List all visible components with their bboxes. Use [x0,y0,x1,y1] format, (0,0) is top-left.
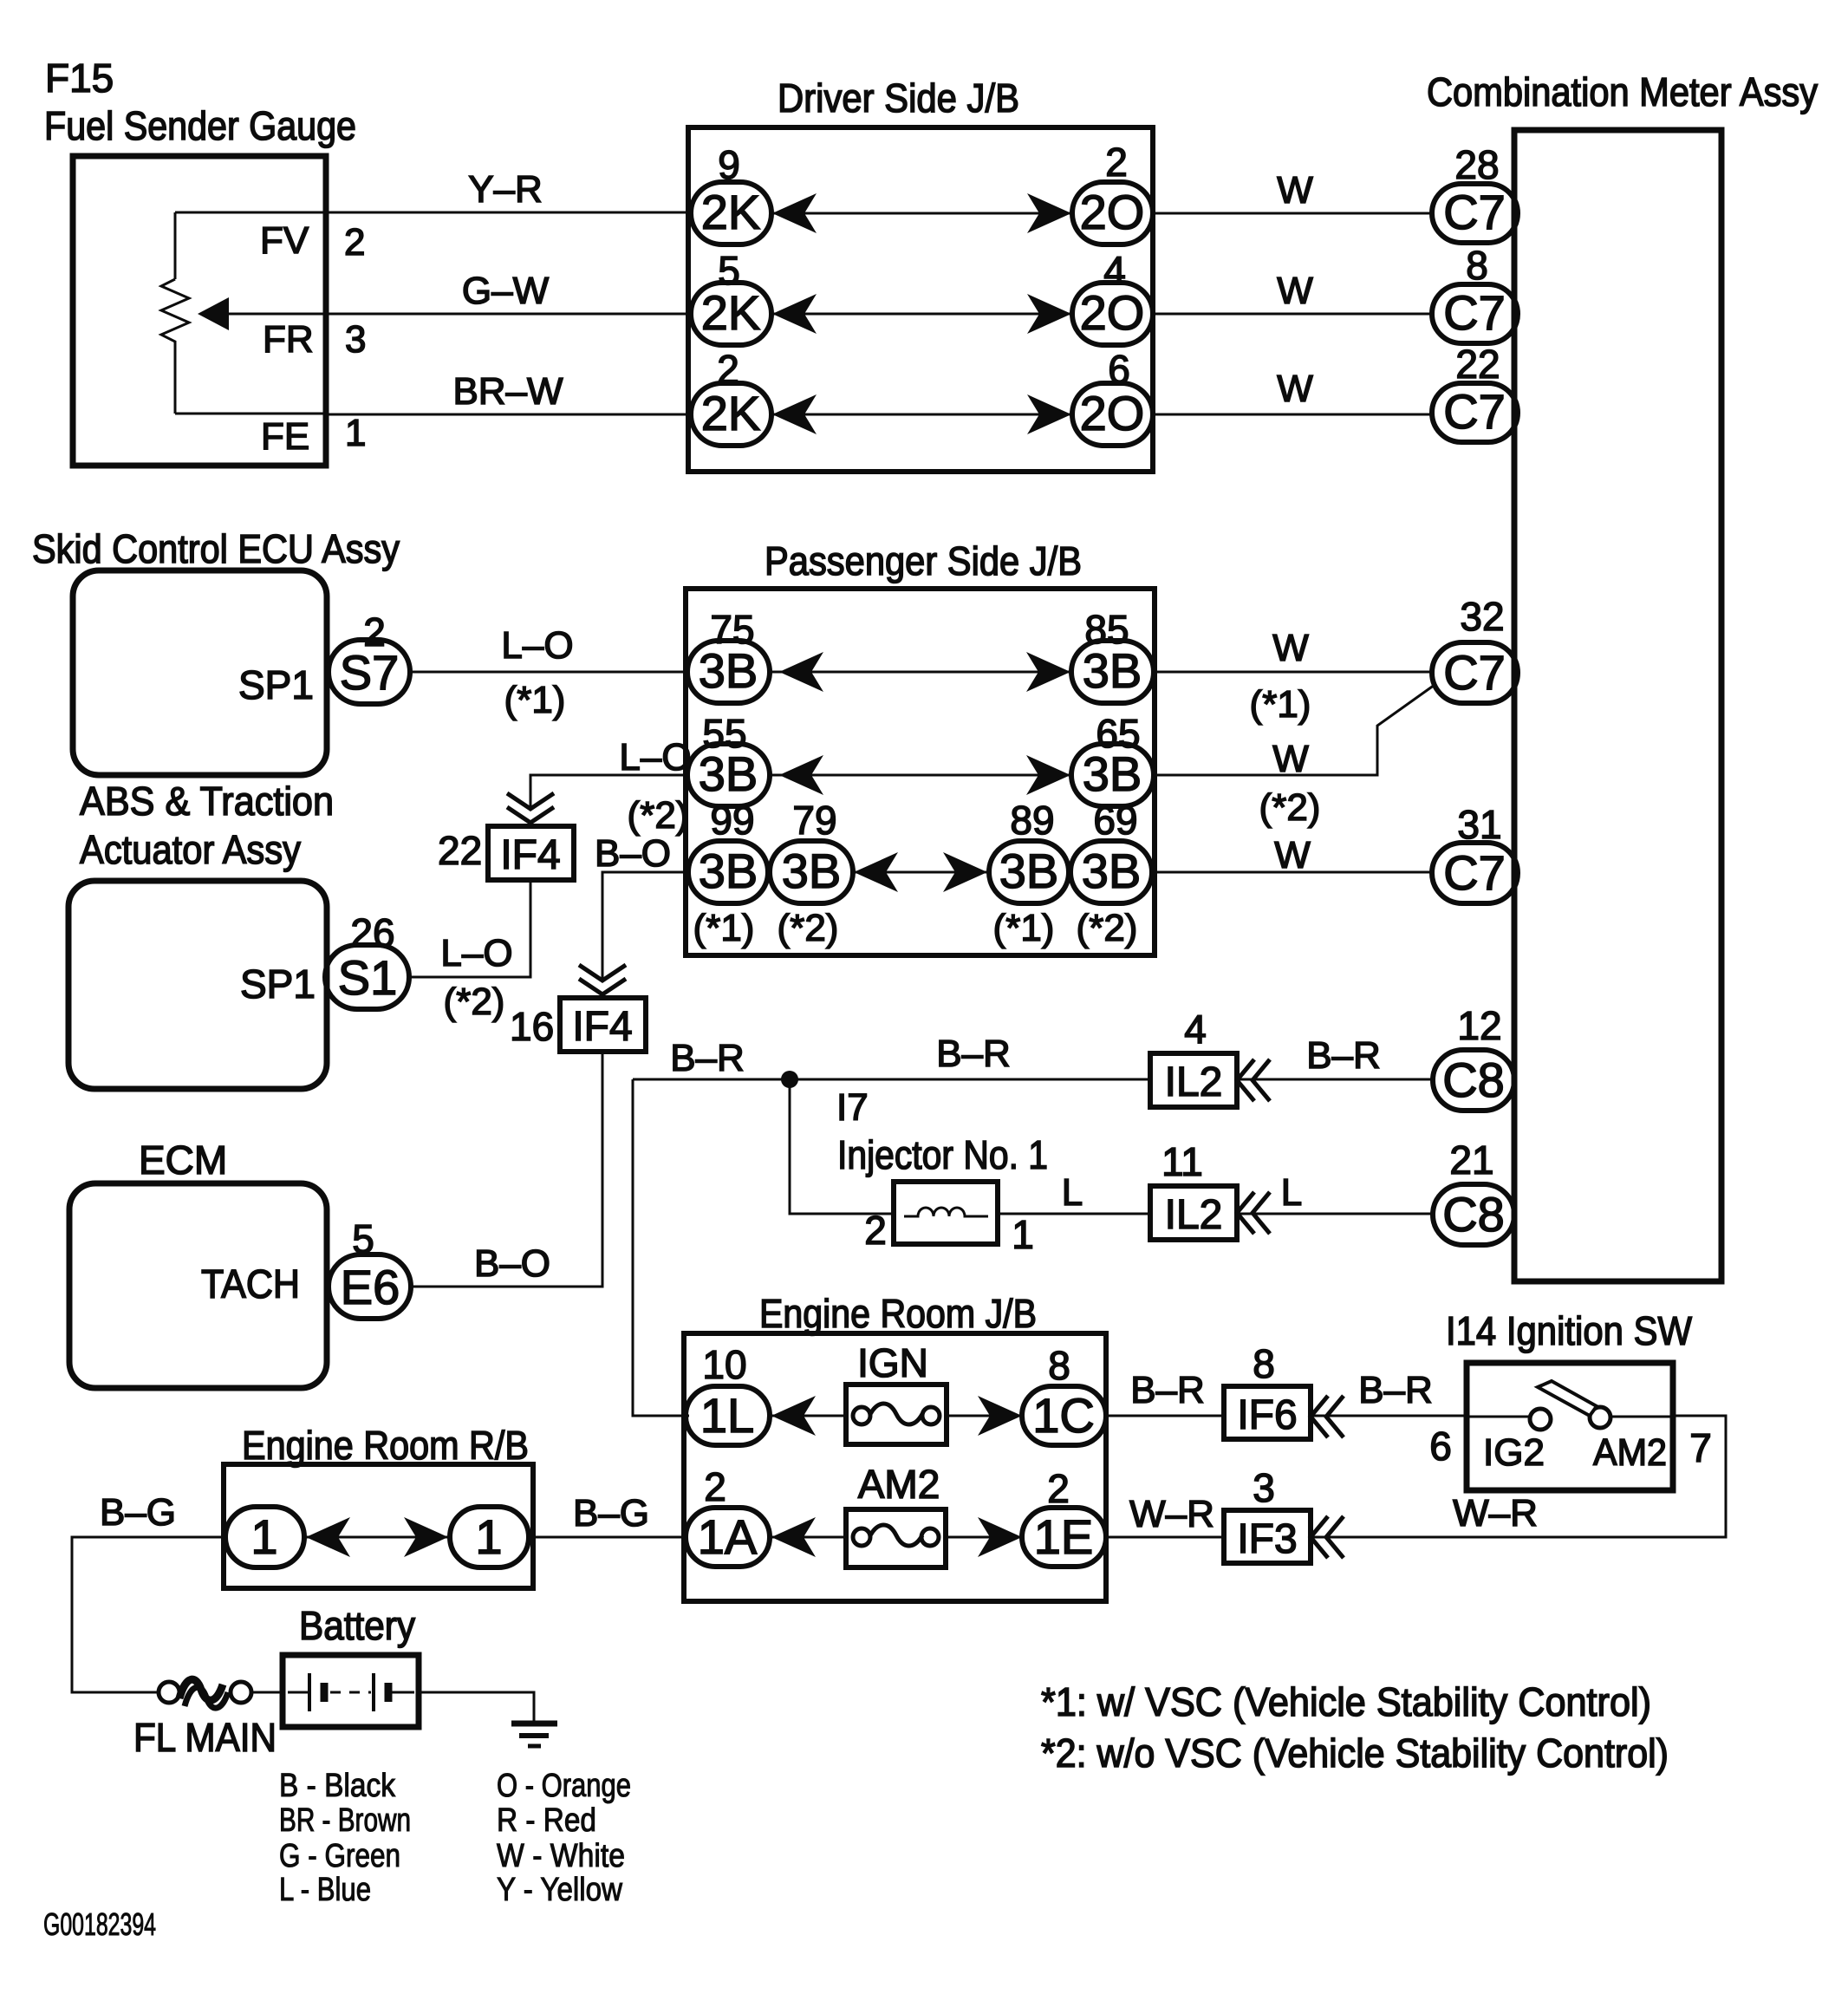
arrow right row2 [1027,294,1071,334]
svg-text:I14 Ignition SW: I14 Ignition SW [1446,1308,1693,1353]
svg-text:1E: 1E [1034,1509,1094,1564]
svg-text:7: 7 [1689,1425,1712,1470]
svg-text:BR–W: BR–W [452,370,563,413]
connector 3B pin 65 [1071,744,1154,806]
wire L-O S7 to passenger JB [410,671,687,674]
svg-text:16: 16 [510,1004,554,1049]
svg-text:89: 89 [1010,798,1054,843]
svg-text:2: 2 [1105,140,1128,185]
arrow right rowB [1026,755,1070,795]
svg-text:W: W [1277,270,1313,312]
svg-text:2O: 2O [1080,386,1145,440]
wire B-O E6 to IF4 16 (drawn above) [411,1286,433,1288]
svg-text:1: 1 [251,1509,277,1564]
wire B-G RB to 1A [529,1536,686,1539]
svg-text:4: 4 [1103,248,1126,293]
svg-text:75: 75 [710,607,754,652]
svg-text:O - Orange: O - Orange [497,1768,631,1804]
connector C7 pin 22 [1432,383,1518,442]
svg-text:3: 3 [345,318,366,361]
wire B-R vertical to engine JB [633,1079,689,1416]
svg-text:(*2): (*2) [1259,786,1321,829]
svg-text:3: 3 [1253,1465,1275,1510]
svg-text:C7: C7 [1443,845,1506,900]
svg-text:I7: I7 [836,1086,869,1129]
ECM box [69,1183,327,1388]
switch lever [1538,1381,1597,1416]
svg-text:6: 6 [1108,347,1130,392]
fuel sender gauge F15 box [73,156,326,466]
wire L injector to IL2 11 [998,1213,1150,1215]
svg-text:BR - Brown: BR - Brown [279,1802,411,1839]
svg-text:Y - Yellow: Y - Yellow [497,1872,622,1908]
fuse AM2 [846,1509,946,1567]
svg-text:IF6: IF6 [1237,1392,1297,1438]
arrow left RB [306,1517,350,1557]
svg-text:*2: w/o VSC (Vehicle Stability: *2: w/o VSC (Vehicle Stability Control) [1041,1730,1669,1776]
wire L IL2 11 to C8 21 [1237,1213,1433,1215]
chevron into IF4 22 [507,793,554,823]
wire W row1 to meter [1153,212,1432,215]
connector 1L pin 10 [686,1386,770,1445]
svg-text:IGN: IGN [857,1340,928,1385]
svg-text:W: W [1272,738,1309,780]
svg-text:Injector No. 1: Injector No. 1 [837,1132,1048,1177]
svg-text:AM2: AM2 [858,1462,940,1507]
svg-text:12: 12 [1457,1003,1501,1048]
chevron IF6 [1311,1396,1344,1437]
connector 2O pin 6 [1072,383,1153,446]
wire W rowC to C7 31 [1152,871,1432,874]
svg-text:W: W [1274,834,1311,876]
connector E6 pin 5 [329,1254,411,1319]
svg-text:L: L [1281,1171,1302,1214]
svg-text:2: 2 [1047,1466,1070,1511]
svg-text:TACH: TACH [201,1261,300,1307]
svg-text:85: 85 [1084,607,1129,652]
wire W row2 to meter [1153,313,1432,316]
svg-text:FR: FR [263,318,314,361]
wire FL MAIN to battery [251,1691,283,1694]
svg-text:G–W: G–W [462,270,550,312]
wire inside RB [304,1536,450,1539]
connector 3B pin 85 [1071,641,1154,703]
svg-text:Engine Room R/B: Engine Room R/B [242,1423,529,1468]
arrow left IGN row [771,1396,816,1436]
svg-text:9: 9 [718,142,740,187]
svg-text:SP1: SP1 [240,961,316,1007]
Combination Meter Assy box [1514,130,1721,1281]
connector 3B pin 55 [687,744,770,806]
switch contact IG2 [1530,1409,1551,1430]
junction I7 [781,1071,798,1088]
ABS & Traction Actuator Assy box [68,881,327,1089]
connector 2O pin 2 [1072,182,1153,244]
connector 3B pin 79 [770,841,853,903]
svg-text:E6: E6 [341,1260,400,1314]
svg-text:B–R: B–R [670,1037,745,1079]
junction connector IF4 pin 16 [560,998,646,1052]
wire rowC inside passenger JB [853,871,989,874]
svg-text:2: 2 [704,1464,726,1509]
wire B-R IF6 to ignition SW [1311,1415,1467,1417]
svg-text:B–R: B–R [1358,1369,1433,1411]
wire rowB inside passenger JB [770,774,1071,777]
arrow left row2 [772,294,817,334]
chevron IL2 11 [1237,1192,1270,1234]
battery cells [288,1673,414,1711]
battery box [283,1655,419,1727]
connector 1 (RB left) [225,1507,304,1567]
arrow into resistor [198,297,229,330]
svg-text:W–R: W–R [1453,1492,1538,1535]
I14 ignition switch box [1467,1363,1673,1490]
svg-text:5: 5 [352,1216,374,1261]
svg-text:L–O: L–O [619,736,691,779]
svg-text:C7: C7 [1443,645,1506,700]
svg-text:(*2): (*2) [444,981,505,1023]
wire junction down to injector [790,1079,894,1214]
svg-text:1: 1 [475,1509,502,1564]
wire AM2 row inside JB [770,1536,1022,1539]
svg-text:Driver Side J/B: Driver Side J/B [778,75,1019,121]
wire B-R 1C to IF6 [1106,1415,1224,1417]
connector 1C pin 8 [1022,1386,1106,1445]
resistor (fuel sender element) [161,279,189,347]
svg-text:AM2: AM2 [1593,1431,1667,1474]
Engine Room J/B box [684,1333,1106,1601]
svg-text:ABS & Traction: ABS & Traction [80,779,334,824]
arrow left row3 [772,394,817,434]
svg-text:B–G: B–G [100,1491,176,1534]
svg-text:L - Blue: L - Blue [279,1872,371,1908]
svg-text:B–R: B–R [936,1033,1011,1075]
wire L-O (*2) passenger JB to IF4 [530,775,687,806]
Passenger Side J/B box [686,589,1155,955]
chevron IF3 [1311,1516,1344,1558]
wire G-W fuel to driver JB [326,313,691,316]
svg-text:2: 2 [363,609,386,655]
connector 3B pin 69 [1070,841,1152,903]
svg-text:65: 65 [1096,711,1140,756]
arrow left rowB [779,755,823,795]
svg-text:26: 26 [350,910,394,955]
connector 2K pin 5 [691,283,771,345]
junction connector IF4 pin 22 [488,826,574,880]
svg-text:ECM: ECM [139,1137,227,1183]
connector 1 (RB right) [450,1507,529,1567]
svg-text:IF4: IF4 [572,1004,632,1050]
connector 2K pin 2 [691,383,771,446]
svg-text:C7: C7 [1443,384,1506,439]
svg-text:2O: 2O [1080,185,1145,239]
wire W-R 1E to IF3 [1106,1536,1224,1539]
svg-text:R - Red: R - Red [497,1802,596,1839]
svg-text:Passenger Side J/B: Passenger Side J/B [765,538,1082,583]
svg-text:3B: 3B [999,844,1059,898]
wire IGN row inside JB [770,1415,1022,1417]
wire IF4 16 down to E6 row [411,1052,602,1287]
svg-text:Y–R: Y–R [468,168,543,211]
wire B-O passenger JB to IF4 16 [602,872,688,978]
Skid Control ECU Assy box [73,570,327,775]
svg-text:B–R: B–R [1306,1034,1381,1077]
svg-text:FV: FV [260,219,309,262]
svg-text:Engine Room J/B: Engine Room J/B [759,1291,1037,1336]
svg-text:5: 5 [718,248,740,293]
svg-text:(*2): (*2) [1077,907,1138,949]
svg-text:L–O: L–O [501,624,573,667]
svg-text:2K: 2K [701,285,761,340]
svg-text:Actuator Assy: Actuator Assy [80,827,301,872]
arrow right rowC [943,852,987,892]
svg-text:B–G: B–G [573,1492,649,1535]
svg-text:Skid Control ECU Assy: Skid Control ECU Assy [32,526,400,571]
connector C8 pin 12 [1433,1050,1514,1111]
svg-text:3B: 3B [699,844,758,898]
svg-text:8: 8 [1466,243,1488,288]
svg-text:69: 69 [1093,798,1137,843]
svg-text:8: 8 [1253,1341,1275,1386]
svg-text:1L: 1L [700,1388,754,1443]
arrow right RB [404,1517,448,1557]
svg-text:2K: 2K [701,386,761,440]
svg-text:L–O: L–O [440,932,512,974]
svg-text:(*1): (*1) [693,907,755,949]
connector 2K pin 9 [691,182,771,244]
svg-text:B–R: B–R [1130,1369,1205,1411]
wire W-R IF3 to ignition SW pin 7 [1311,1416,1726,1537]
svg-text:IL2: IL2 [1165,1059,1223,1105]
svg-text:F15: F15 [45,55,114,101]
arrow left row1 [772,193,817,233]
wire battery to ground [419,1692,534,1722]
svg-text:11: 11 [1162,1139,1203,1184]
svg-text:22: 22 [438,828,482,873]
svg-text:SP1: SP1 [238,662,314,707]
connector 1E pin 2 [1022,1508,1106,1567]
svg-text:C7: C7 [1443,185,1506,239]
svg-text:FE: FE [261,415,309,458]
svg-text:1: 1 [1012,1212,1034,1257]
wire B-R IL2 4 to C8 12 [1237,1078,1433,1081]
svg-text:B–O: B–O [595,832,671,875]
svg-text:W: W [1277,368,1313,410]
svg-text:(*1): (*1) [504,679,566,721]
svg-text:1: 1 [345,412,366,454]
svg-text:2: 2 [344,221,365,264]
arrow right row3 [1027,394,1071,434]
arrow right AM2 row [978,1517,1022,1557]
fusible link FL MAIN [159,1679,251,1708]
arrow right rowA [1026,652,1070,692]
svg-text:C7: C7 [1443,285,1506,340]
connector C8 pin 21 [1433,1184,1514,1245]
svg-text:(*1): (*1) [1250,683,1311,726]
svg-text:IF3: IF3 [1237,1516,1297,1562]
svg-text:(*2): (*2) [628,794,689,837]
svg-text:99: 99 [710,798,754,843]
svg-text:L: L [1062,1171,1083,1214]
injector coil [904,1208,988,1216]
connector C7 pin 28 [1432,184,1518,243]
wire from AM2 contact to box edge [1610,1416,1673,1418]
wire BR-W fuel to driver JB [326,414,691,416]
wire W (*1) rowA to C7 32 [1154,671,1432,674]
svg-text:1C: 1C [1032,1388,1095,1443]
svg-text:10: 10 [702,1342,746,1387]
Engine Room R/B box [224,1464,533,1588]
svg-text:3B: 3B [782,844,842,898]
switch contact AM2 [1590,1407,1610,1428]
svg-text:2K: 2K [701,185,761,239]
wire W row3 to meter [1153,414,1432,416]
wire row1 inside driver JB [771,212,1072,215]
svg-text:W: W [1272,627,1309,669]
wire rowA inside passenger JB [770,671,1071,674]
connector C7 pin 31 [1432,843,1518,903]
arrow right IGN row [978,1396,1022,1436]
junction connector IL2 pin 11 [1150,1186,1237,1240]
fuel sender inner connector box [175,212,326,414]
wire FR arrow stub [224,313,326,316]
svg-text:C8: C8 [1442,1187,1505,1241]
svg-text:W - White: W - White [497,1838,625,1874]
arrow right row1 [1027,193,1071,233]
injector No.1 box I7 [894,1182,998,1244]
svg-text:B–O: B–O [474,1242,550,1285]
svg-text:W: W [1277,169,1313,212]
connector S7 pin 2 [329,640,410,704]
fuse IGN [846,1385,947,1444]
connector S1 pin 26 [325,945,409,1009]
svg-text:31: 31 [1457,802,1501,847]
svg-text:(*1): (*1) [993,907,1055,949]
svg-text:32: 32 [1460,594,1504,639]
wire B-G left of RB [72,1537,225,1692]
svg-text:22: 22 [1455,342,1500,387]
svg-text:3B: 3B [1082,844,1142,898]
svg-text:C8: C8 [1442,1052,1505,1107]
svg-text:S1: S1 [338,950,398,1005]
svg-text:79: 79 [792,798,836,843]
wire B-R horizontal to IL2 4 [633,1078,1150,1081]
svg-text:8: 8 [1048,1343,1070,1388]
svg-text:Battery: Battery [299,1603,415,1648]
wire W (*2) rowB jog to C7 32 [1154,685,1435,775]
arrow left rowC [854,852,898,892]
junction connector IL2 pin 4 [1150,1053,1237,1107]
svg-text:W–R: W–R [1129,1493,1214,1535]
svg-text:2: 2 [864,1208,887,1253]
connector 2O pin 4 [1072,283,1153,345]
arrow left rowA [779,652,823,692]
junction connector IF3 pin 3 [1224,1510,1311,1563]
connector C7 pin 32 [1432,642,1518,703]
svg-text:Fuel Sender Gauge: Fuel Sender Gauge [44,103,356,148]
svg-text:2: 2 [717,347,739,392]
svg-text:55: 55 [702,711,746,756]
connector 1A pin 2 [686,1508,770,1567]
connector 3B pin 89 [989,841,1069,903]
wire row2 inside driver JB [771,313,1072,316]
svg-text:IF4: IF4 [500,832,560,878]
svg-text:FL MAIN: FL MAIN [133,1715,277,1760]
svg-text:1A: 1A [698,1509,758,1564]
svg-text:6: 6 [1429,1424,1452,1469]
connector C7 pin 8 [1432,284,1518,343]
arrow left AM2 row [771,1517,816,1557]
svg-text:(*2): (*2) [778,907,839,949]
Driver Side J/B box [688,127,1153,472]
wire row3 inside driver JB [771,414,1072,416]
chevron into IF4 16 [579,965,626,994]
ground [511,1724,557,1746]
connector 3B pin 75 [687,641,770,703]
svg-text:Combination Meter Assy: Combination Meter Assy [1427,69,1818,114]
svg-text:IL2: IL2 [1165,1192,1223,1238]
svg-text:28: 28 [1454,142,1499,187]
wire into IG2 contact [1467,1416,1530,1418]
svg-text:G - Green: G - Green [279,1838,400,1874]
connector 3B pin 99 [688,841,768,903]
svg-text:21: 21 [1449,1137,1493,1183]
junction connector IF6 pin 8 [1224,1386,1311,1439]
svg-text:*1: w/ VSC (Vehicle Stability: *1: w/ VSC (Vehicle Stability Control) [1041,1679,1651,1724]
wire Y-R fuel to driver JB [326,212,691,214]
chevron IL2 4 [1237,1059,1270,1101]
svg-text:B - Black: B - Black [279,1768,396,1804]
svg-text:4: 4 [1184,1007,1207,1052]
svg-text:IG2: IG2 [1483,1431,1545,1474]
wire L-O (*2) S1 to IF4 [409,880,530,977]
svg-text:G00182394: G00182394 [43,1906,156,1942]
svg-text:2O: 2O [1080,285,1145,340]
